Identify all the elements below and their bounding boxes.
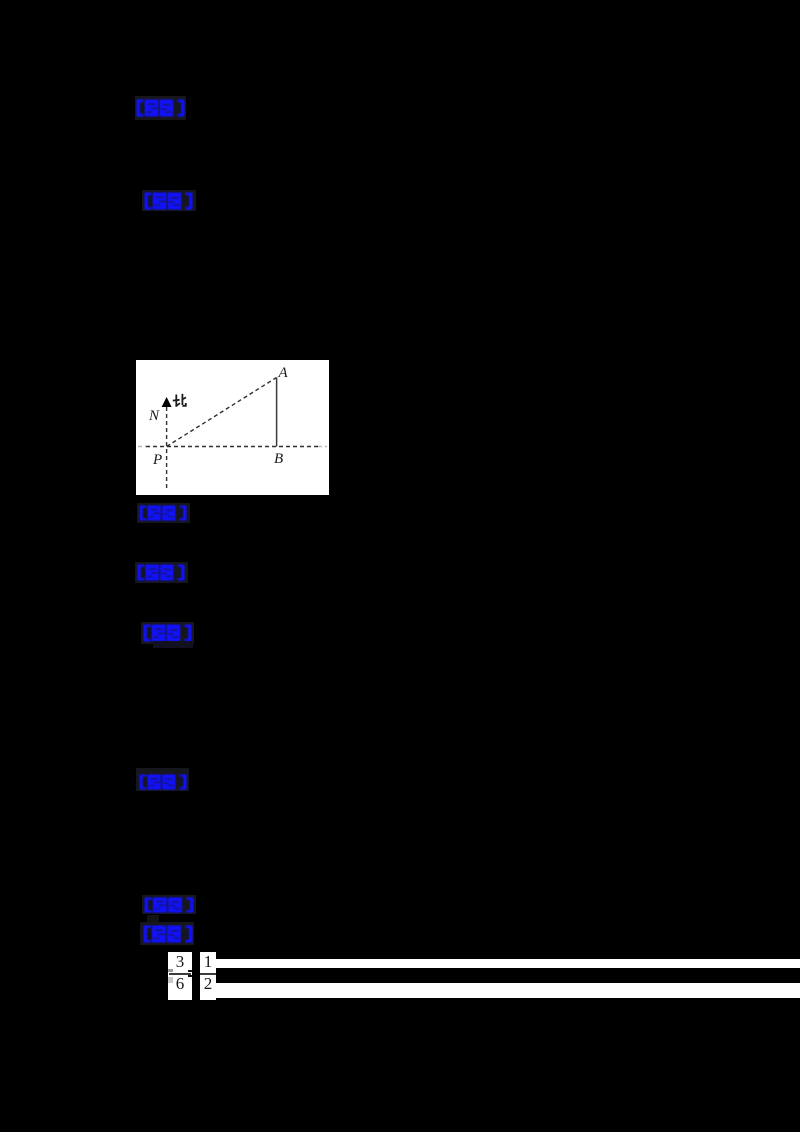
marker block 3 (blue section tag) — [137, 503, 190, 523]
dashed bearing line P to A — [167, 378, 277, 447]
geometry figure (white panel with bearing diagram) — [136, 360, 329, 495]
north arrow — [162, 397, 172, 407]
marker block 1 (blue section tag) — [135, 96, 186, 120]
marker block 6 (blue section tag) — [136, 768, 189, 791]
equals sign tips on 3/6 chip edges — [168, 969, 173, 972]
marker block 7 (blue section tag) — [142, 895, 196, 914]
fraction 1/2 on white chip — [200, 952, 216, 1000]
marker block 2 (blue section tag) — [142, 190, 196, 211]
fraction bar 1/2 — [200, 973, 216, 975]
svg-text:N: N — [148, 408, 160, 424]
solid line A to B — [276, 378, 278, 447]
marker block 5 (blue section tag) — [141, 622, 194, 644]
svg-text:P: P — [152, 452, 162, 468]
horizontal dashed line through P — [138, 446, 146, 448]
marker block 4 (blue section tag) — [135, 562, 188, 583]
white text strip right of numerator — [216, 959, 800, 968]
svg-text:B: B — [274, 451, 283, 467]
figure background — [136, 360, 329, 495]
fraction 3/6 on white chip — [168, 952, 192, 1000]
marker block 8 (blue section tag) — [140, 922, 194, 945]
white text strip right of denominator — [216, 983, 800, 998]
faint artifact between marker blocks 7 and 8 — [147, 915, 159, 922]
fraction bar 3/6 — [169, 973, 191, 975]
vertical dashed line through P — [166, 407, 168, 490]
label bei (north) — [173, 394, 186, 407]
svg-text:A: A — [278, 365, 289, 381]
faint artifact patch below marker block 5 — [153, 641, 193, 648]
